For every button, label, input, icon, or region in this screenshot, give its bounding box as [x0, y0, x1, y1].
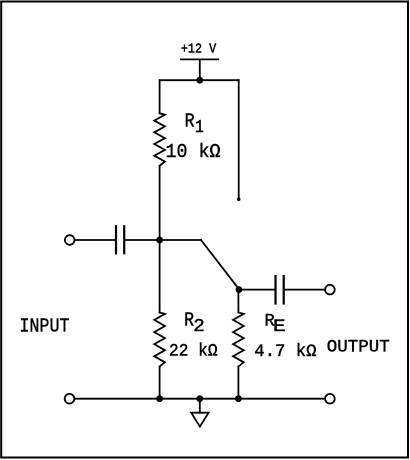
output terminal: [325, 285, 335, 295]
wire from R1 to base node: [159, 166, 161, 240]
node at emitter junction: [236, 286, 243, 293]
transistor Q1 collector lead: [238, 80, 240, 199]
wire from emitter node down to RE: [237, 290, 239, 313]
svg-text:E: E: [273, 317, 286, 337]
wire from capacitor C2 to output terminal: [285, 289, 325, 291]
bottom left terminal: [65, 394, 75, 404]
top rail wire: [160, 79, 239, 81]
resistor R2 label: [184, 310, 205, 337]
node at RE ground junction: [235, 395, 242, 402]
svg-text:1: 1: [195, 117, 204, 138]
bottom rail wire: [75, 398, 325, 400]
node at base junction: [156, 237, 163, 244]
resistor R2: [154, 313, 165, 367]
svg-text:4.7 kΩ: 4.7 kΩ: [254, 342, 317, 362]
svg-text:22 kΩ: 22 kΩ: [169, 341, 218, 361]
wire from supply bar to top rail: [199, 59, 201, 80]
wire from rail to ground symbol: [199, 399, 201, 413]
wire from base node down to R2: [159, 240, 161, 313]
resistor RE label: [265, 311, 286, 337]
wire from capacitor C1 to base node: [125, 239, 159, 241]
resistor R1: [154, 113, 165, 166]
svg-text:2: 2: [193, 316, 205, 337]
input terminal: [65, 235, 75, 245]
ground: [191, 413, 208, 427]
capacitor C2 (output coupling): [276, 276, 284, 304]
svg-text:INPUT: INPUT: [19, 316, 69, 338]
svg-text:+12 V: +12 V: [181, 43, 217, 58]
svg-text:R: R: [185, 111, 195, 133]
resistor R1 label: [185, 111, 204, 138]
svg-text:OUTPUT: OUTPUT: [327, 337, 390, 357]
node at +12V rail junction: [196, 77, 203, 84]
transistor Q1 emitter lead (diagonal): [201, 240, 239, 290]
wire from emitter node to capacitor C2: [239, 289, 275, 291]
capacitor C1 (input coupling): [116, 226, 124, 253]
wire from R2 to ground rail: [159, 367, 161, 399]
bottom right terminal: [325, 394, 335, 404]
node at R2 ground junction: [156, 395, 163, 402]
wire from input terminal to coupling capacitor: [75, 239, 115, 241]
resistor RE: [233, 313, 244, 367]
svg-text:10 kΩ: 10 kΩ: [166, 141, 221, 163]
transistor Q1 base wire: [160, 239, 201, 241]
power supply bar symbol: [181, 58, 218, 60]
wire from RE to ground rail: [237, 367, 239, 399]
node at ground stub junction: [196, 395, 203, 402]
wire from top rail down to R1: [159, 80, 161, 113]
